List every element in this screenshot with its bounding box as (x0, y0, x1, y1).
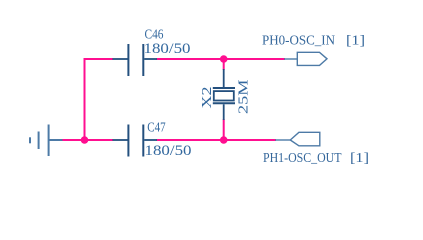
svg-text:180/50: 180/50 (145, 143, 192, 159)
value 180/50 (C47) (145, 143, 192, 159)
wire top horizontal middle segment (157, 58, 286, 60)
svg-text:25M: 25M (237, 79, 252, 114)
wire top horizontal left segment (85, 58, 114, 60)
wire bottom horizontal middle segment (157, 139, 277, 141)
svg-text:PH1-OSC_OUT: PH1-OSC_OUT (263, 151, 342, 166)
port PH1-OSC_OUT lead (275, 139, 291, 141)
label C47 (147, 120, 165, 135)
wire crystal bottom vertical (223, 119, 225, 140)
svg-text:180/50: 180/50 (144, 41, 191, 57)
junction at crystal top (220, 55, 228, 63)
svg-text:C47: C47 (147, 120, 165, 135)
label PH1-OSC_OUT [1] (263, 151, 369, 166)
capacitor C46 (113, 44, 158, 76)
wire left vertical (84, 58, 86, 140)
junction at crystal bottom (220, 136, 228, 144)
junction at left bottom (81, 136, 89, 144)
capacitor C47 (113, 125, 158, 157)
value 25M (X2) (237, 79, 252, 114)
ground (30, 125, 63, 157)
svg-text:[1]: [1] (350, 151, 369, 166)
svg-text:X2: X2 (200, 87, 215, 109)
wire crystal top vertical (223, 59, 225, 70)
port PH1-OSC_OUT (290, 132, 320, 146)
svg-text:PH0-OSC_IN: PH0-OSC_IN (262, 33, 335, 48)
label X2 (200, 87, 215, 109)
value 180/50 (C46) (144, 41, 191, 57)
svg-text:[1]: [1] (346, 33, 365, 48)
label C46 (145, 28, 164, 43)
port PH0-OSC_IN lead (284, 58, 297, 60)
label PH0-OSC_IN [1] (262, 33, 365, 48)
port PH0-OSC_IN (297, 52, 327, 65)
wire bottom horizontal from ground (62, 139, 113, 141)
crystal X2 (213, 69, 235, 120)
